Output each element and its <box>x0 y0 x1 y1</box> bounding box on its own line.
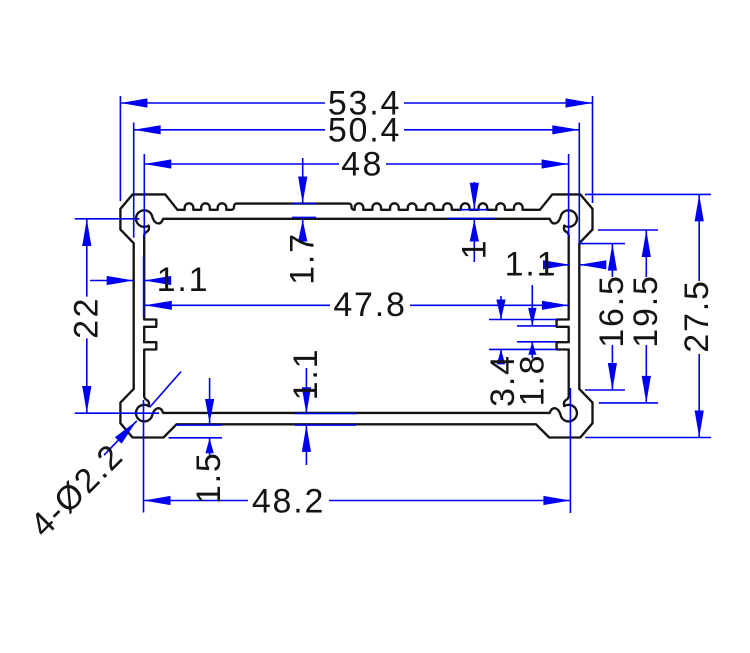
dim 1.5 bottom corner step <box>209 378 211 424</box>
dim 1 valley thickness <box>473 182 475 210</box>
dim 1.1 left wall thickness <box>90 280 134 282</box>
dim 48 hole spacing <box>143 154 145 237</box>
dim 1.8 slot gap <box>517 325 556 327</box>
dim 48.2 bottom hole spacing <box>143 400 145 513</box>
dim 1.1 right wall thickness <box>549 264 570 266</box>
svg-text:1.8: 1.8 <box>513 354 551 407</box>
svg-text:47.8: 47.8 <box>333 286 406 324</box>
screw boss top-left <box>136 210 163 237</box>
dim 50.4 body width <box>133 123 135 238</box>
svg-text:48.2: 48.2 <box>252 483 325 521</box>
svg-text:1.1: 1.1 <box>287 348 325 401</box>
dim 27.5 overall height <box>585 193 711 195</box>
screw boss bottom-right <box>550 394 577 421</box>
svg-text:1.5: 1.5 <box>190 451 228 504</box>
svg-text:4-Ø2.2: 4-Ø2.2 <box>23 436 131 544</box>
svg-text:1.1: 1.1 <box>505 246 558 284</box>
svg-text:27.5: 27.5 <box>678 279 716 352</box>
dim 16.5 right height <box>579 243 625 245</box>
dim 1.7 plate thickness <box>302 158 304 204</box>
svg-text:22: 22 <box>67 296 105 339</box>
dim 1.1 bottom plate thickness <box>305 368 307 414</box>
svg-text:48: 48 <box>341 145 384 183</box>
dim 22 left interior height <box>75 218 140 220</box>
left wall inner face with PCB slot tabs <box>144 238 156 394</box>
svg-text:16.5: 16.5 <box>593 274 631 347</box>
dim 47.8 interior width <box>145 304 330 306</box>
profile outer outline <box>120 194 592 437</box>
svg-text:1: 1 <box>456 239 494 260</box>
dim 53.4 overall width <box>119 96 121 201</box>
svg-text:1.7: 1.7 <box>283 232 321 285</box>
svg-text:19.5: 19.5 <box>627 274 665 347</box>
leader 4xd2.2 screw holes <box>104 421 137 455</box>
top inner surface <box>163 218 550 220</box>
svg-text:1.1: 1.1 <box>157 261 210 299</box>
bottom inner surface <box>163 412 550 414</box>
svg-text:50.4: 50.4 <box>328 111 401 149</box>
screw boss bottom-left <box>136 394 163 421</box>
screw boss top-right <box>550 210 577 237</box>
dim 19.5 right height <box>598 229 658 231</box>
dim 3.4 slot outer span <box>489 319 557 321</box>
right wall inner face with PCB slot tabs <box>557 238 569 394</box>
